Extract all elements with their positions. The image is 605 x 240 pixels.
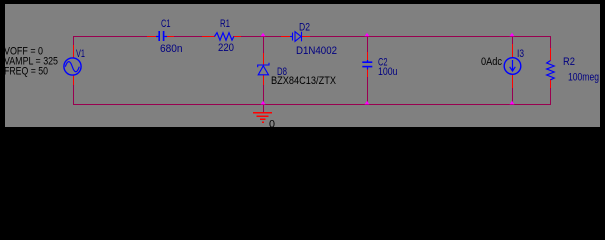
- pin D2 left: [281, 36, 290, 37]
- svg-text:220: 220: [218, 42, 234, 54]
- wire top: C1 to R1: [174, 36, 202, 37]
- svg-text:I3: I3: [517, 48, 524, 60]
- svg-text:R1: R1: [220, 18, 230, 30]
- svg-text:D8: D8: [277, 66, 287, 78]
- pin V1 top: [73, 45, 74, 58]
- svg-text:R2: R2: [563, 56, 575, 68]
- junction node I3 bottom: [510, 101, 515, 105]
- wire I3 branch lower: [512, 88, 513, 104]
- border frame: [0, 0, 605, 134]
- svg-text:680n: 680n: [160, 43, 183, 55]
- pin C1 right: [166, 36, 174, 37]
- wire top: D2 to right corner: [310, 36, 550, 37]
- pin C2 top: [367, 52, 368, 61]
- wire top: V1 corner to C1: [73, 36, 147, 37]
- svg-text:100u: 100u: [378, 66, 398, 78]
- svg-text:100meg: 100meg: [568, 72, 599, 84]
- current source I3: [504, 58, 521, 75]
- wire bottom: [73, 104, 551, 105]
- wire top: R1 to D2: [241, 36, 281, 37]
- svg-text:D2: D2: [299, 22, 310, 34]
- capacitor C2: [362, 60, 372, 70]
- ground symbol 0: [253, 112, 272, 123]
- diode D2: [290, 32, 302, 42]
- pin R1 right: [233, 36, 241, 37]
- junction node I3 top: [510, 33, 515, 37]
- pin I3 bottom: [512, 74, 513, 88]
- svg-text:V1: V1: [76, 48, 85, 60]
- pin V1 bottom: [73, 75, 74, 85]
- resistor R2: [547, 61, 555, 80]
- pin D8 top: [263, 53, 264, 65]
- capacitor C1: [156, 31, 167, 41]
- pin C1 left: [147, 36, 157, 37]
- pin I3 top: [512, 44, 513, 58]
- pin D8 bottom: [263, 75, 264, 85]
- zener diode D8: [258, 63, 269, 75]
- junction node C2 top: [365, 33, 370, 37]
- junction node D8 bottom: [261, 101, 266, 105]
- wire I3 branch upper: [512, 36, 513, 44]
- svg-text:0Adc: 0Adc: [481, 56, 502, 68]
- voltage source V1: [64, 58, 81, 75]
- wire D8 branch upper: [263, 36, 264, 53]
- wire left vertical upper: [73, 36, 74, 45]
- wire D8 branch lower: [263, 85, 264, 104]
- wire left vertical lower: [73, 85, 74, 105]
- wire ground stub: [263, 104, 264, 112]
- svg-text:0: 0: [269, 119, 275, 131]
- junction node C2 bottom: [365, 101, 370, 105]
- junction node D8 top: [261, 33, 266, 37]
- svg-text:D1N4002: D1N4002: [296, 45, 337, 57]
- pin R1 left: [202, 36, 215, 37]
- resistor R1: [215, 33, 234, 41]
- wire C2 branch lower: [367, 77, 368, 104]
- svg-text:FREQ = 50: FREQ = 50: [4, 66, 48, 78]
- pin R2 top: [550, 48, 551, 61]
- wire right vertical upper: [550, 36, 551, 48]
- pin C2 bottom: [367, 68, 368, 77]
- pin R2 bottom: [550, 79, 551, 88]
- pin D2 right: [302, 36, 310, 37]
- svg-text:C1: C1: [161, 18, 171, 30]
- wire right vertical lower: [550, 88, 551, 105]
- wire C2 branch upper: [367, 36, 368, 52]
